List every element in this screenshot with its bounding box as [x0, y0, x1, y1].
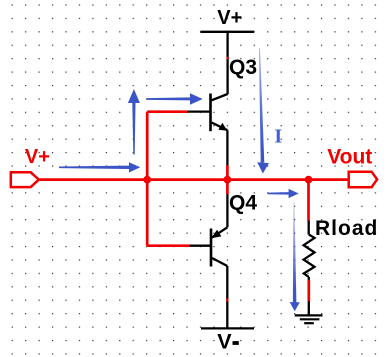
svg-text:V+: V+: [217, 7, 242, 29]
svg-text:I: I: [274, 126, 282, 148]
svg-text:Q3: Q3: [229, 56, 257, 79]
svg-text:V+: V+: [25, 146, 50, 168]
svg-text:Rload: Rload: [315, 217, 378, 240]
svg-text:V: V: [217, 330, 232, 354]
svg-text:Q4: Q4: [229, 192, 257, 215]
svg-text:Vout: Vout: [327, 146, 372, 169]
